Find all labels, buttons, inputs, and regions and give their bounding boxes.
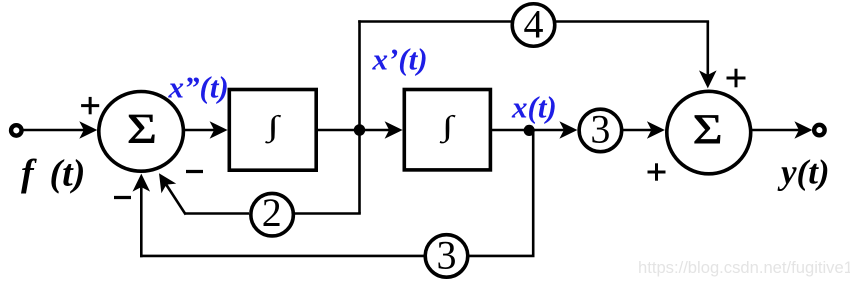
integrator U1 bbox=[229, 90, 316, 171]
svg-text:x”(t): x”(t) bbox=[168, 70, 229, 105]
svg-text:f: f bbox=[21, 153, 37, 195]
output terminal bbox=[814, 125, 825, 136]
gain K1 value 3 bbox=[579, 107, 622, 152]
wire top horizontal to gain K2 bbox=[358, 20, 513, 23]
integrator U2 bbox=[404, 90, 490, 170]
svg-text:3: 3 bbox=[590, 107, 610, 152]
wire N1 up to top line bbox=[358, 20, 361, 130]
wire K2 to S2 top bbox=[554, 22, 717, 89]
gain K3 value 2 bbox=[251, 190, 294, 236]
wire N2 down to gain K4 feedback bbox=[469, 130, 535, 256]
label - sign S1 input from K3 bbox=[186, 170, 203, 173]
label + sign S2 top input bbox=[727, 69, 746, 88]
wire S2 to output terminal bbox=[751, 121, 813, 139]
wire input to summer S1 bbox=[23, 121, 97, 139]
svg-text:3: 3 bbox=[437, 233, 457, 278]
svg-text:x(t): x(t) bbox=[511, 89, 557, 124]
wire K1 to summer S2 bbox=[622, 121, 665, 139]
wire N1 down to gain K3 feedback bbox=[294, 130, 361, 214]
svg-text:https://blog.csdn.net/fugitive: https://blog.csdn.net/fugitive1 bbox=[638, 258, 850, 277]
svg-text:2: 2 bbox=[262, 190, 282, 235]
input terminal bbox=[11, 125, 22, 136]
wire K4 to S1 bottom bbox=[133, 174, 426, 258]
svg-text:∫: ∫ bbox=[438, 110, 455, 144]
label + sign S1 left input bbox=[81, 97, 99, 114]
node N2 junction dot bbox=[524, 125, 535, 136]
label + sign S2 left input bbox=[648, 163, 666, 180]
gain K2 value 4 bbox=[512, 1, 555, 46]
wire U2 to node N2 bbox=[491, 129, 531, 132]
summing junction S2 bbox=[667, 91, 751, 174]
wire U1 to node N1 bbox=[317, 129, 359, 132]
svg-text:Σ: Σ bbox=[127, 106, 157, 153]
gain K4 value 3 bbox=[425, 233, 468, 278]
svg-text:y(t): y(t) bbox=[777, 153, 830, 192]
node N1 junction dot bbox=[354, 124, 366, 136]
svg-text:(t): (t) bbox=[50, 153, 86, 195]
wire node N1 to integrator U2 bbox=[360, 121, 403, 139]
svg-text:∫: ∫ bbox=[264, 110, 281, 144]
svg-text:4: 4 bbox=[524, 1, 544, 46]
summing junction S1 bbox=[99, 92, 184, 172]
svg-text:x’(t): x’(t) bbox=[372, 42, 428, 77]
wire S1 to integrator U1 bbox=[184, 121, 228, 139]
svg-text:Σ: Σ bbox=[693, 107, 723, 154]
label - sign S1 input from K4 bbox=[114, 196, 131, 199]
wire N2 to gain K1 bbox=[529, 121, 577, 139]
wire K3 to S1 diagonal bbox=[159, 173, 249, 214]
